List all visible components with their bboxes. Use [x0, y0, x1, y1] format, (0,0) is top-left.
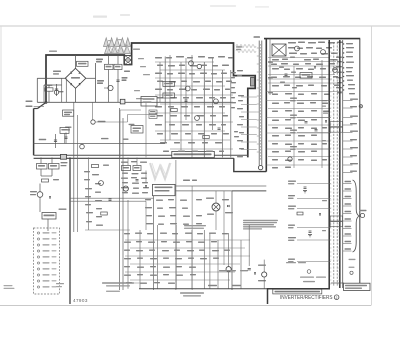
- wire: verticals x61.7/x66.3: [61, 78, 63, 102]
- wire: right block extra rows: [268, 61, 336, 63]
- label: misc left column: [96, 59, 103, 61]
- wire: stubs left of ribbon: [241, 96, 257, 98]
- note box: bottom right: [344, 283, 371, 290]
- resistor R3560: [297, 212, 303, 215]
- inductor L3501 block: [114, 64, 122, 69]
- transistor Q3510 (with cross): [212, 203, 220, 211]
- relay boxes (top right of section): [141, 97, 157, 107]
- inductor L3500 block: [105, 64, 114, 69]
- diode CR3514: [145, 185, 147, 187]
- resistor R3524: [203, 136, 210, 139]
- relay K3500 box: [42, 213, 56, 220]
- transformer T3502 winding columns: [333, 42, 335, 286]
- capacitor C3527: [285, 73, 288, 75]
- fuse F3500 box: [37, 164, 48, 170]
- labels: left of core: [322, 100, 327, 101]
- label: T3500 designator: [133, 49, 140, 50]
- transformer winding junction boxes: [330, 122, 342, 127]
- wire: transformer bottom ties: [331, 282, 344, 284]
- transistor Q3512: [123, 186, 128, 191]
- wire: right block inner rail: [269, 39, 271, 95]
- note: parts list reference text: [243, 220, 278, 221]
- transformer T3500 windings (triangle symbols): [104, 38, 109, 47]
- resistor R3535: [92, 165, 99, 168]
- label: LINE REG: [183, 180, 190, 182]
- wire: inner vertical x294: [293, 66, 295, 168]
- node: ring above right note box: [350, 271, 353, 274]
- labels: near Q3524: [258, 265, 266, 266]
- label: CR20x above bus: [208, 285, 217, 286]
- capacitor C3512: [116, 79, 119, 81]
- transformer T3502 winding bumps: [330, 43, 331, 45]
- label box: LINE INVERTER BOARD ASSY: [172, 151, 215, 157]
- wire: cluster ties: [127, 157, 129, 165]
- diode CR3544: [319, 213, 321, 215]
- transistor Q3511: [91, 120, 95, 124]
- label: LINE-47 INVERTER ASSY: [180, 292, 204, 293]
- capacitor C3520: [55, 134, 57, 148]
- label: fuse ratings: [61, 162, 68, 163]
- svg-text:47903: 47903: [73, 298, 88, 303]
- wire: inner vertical x322: [321, 60, 323, 168]
- label: LINE: [26, 101, 33, 103]
- wire: line input down-run: [33, 109, 35, 156]
- labels: mid section: [145, 199, 151, 200]
- wire: corner links (x120-157): [120, 109, 141, 111]
- wire: secondary stubs into brace: [343, 183, 352, 185]
- transformer T3501 coupling squiggle: [236, 45, 256, 48]
- labels: above right of bus: [286, 262, 296, 263]
- wire: secondary stubs right side: [343, 100, 353, 102]
- labels: bottom cluster values: [124, 233, 130, 234]
- label: Q3508: [97, 80, 104, 82]
- wire: top heavy rail (right block): [264, 38, 360, 40]
- transistor Q3517: [321, 50, 326, 55]
- wire: bottom output bus: [139, 288, 268, 290]
- labels: control section values: [155, 57, 162, 59]
- capacitor C3522: [65, 133, 67, 144]
- node: ring above note: [307, 270, 311, 274]
- label: TO SH ring: [360, 210, 367, 211]
- interconnect ribbon (board edge pair): [258, 41, 260, 166]
- labels: left primary taps of T3502: [290, 98, 297, 99]
- thermistor ring: [54, 90, 58, 94]
- transistor Q3516: [295, 46, 300, 51]
- labels: left-middle: [84, 171, 90, 172]
- capacitor C3540 on tap: [304, 186, 307, 188]
- transistor Q3522: [226, 267, 231, 272]
- zener VR3550: [254, 272, 256, 274]
- labels: chart note: [184, 225, 206, 226]
- wire: output dots: [343, 43, 344, 44]
- wire: right rail vertical: [359, 39, 361, 285]
- wire: bridge bottom: [75, 88, 77, 102]
- wire: to relay: [39, 197, 41, 212]
- wire: control rows: [155, 61, 214, 63]
- IC box left of ribbon: [251, 78, 255, 87]
- wire: primary taps into transformer (left): [297, 100, 331, 102]
- label: relay: [59, 209, 67, 210]
- transistor Q3508: [108, 85, 113, 90]
- connector tab (lower rail): [120, 99, 125, 104]
- labels: between sections: [138, 58, 144, 59]
- transistor Q3509: [80, 144, 85, 149]
- brace: outputs to sheet 2: [353, 180, 360, 252]
- diode CR3512: [227, 205, 229, 207]
- wire: left board rail: [69, 157, 71, 304]
- wire: bridge input: [37, 77, 65, 79]
- label: T-35xx: [65, 127, 72, 128]
- node: sheet ring after title: [334, 295, 339, 300]
- diode CR3521: [325, 120, 327, 122]
- capacitor C3536: [109, 198, 112, 200]
- label: above heavy corner: [49, 51, 57, 52]
- wire: switch second stub: [34, 105, 44, 107]
- label: BE A P.C. assembly note: [219, 270, 236, 271]
- module box A: [163, 81, 175, 86]
- transistor Q3505: [195, 116, 200, 121]
- rectifier cluster block (x120-150): [122, 166, 131, 171]
- labels: right block mid rows: [272, 59, 279, 61]
- label: CR3508 value: [53, 71, 61, 73]
- wire: bridge top to heavy rail: [75, 55, 77, 68]
- wire: mid rails: [175, 185, 266, 187]
- wire: stub x140: [145, 102, 147, 157]
- labels: right block top rows: [288, 42, 296, 44]
- node: sheet reference ring (top): [359, 105, 362, 108]
- transistor Q3518: [333, 68, 338, 73]
- wire: bridge output right: [86, 77, 96, 79]
- board outline: detail box (heavy): [268, 289, 331, 304]
- labels: right column lower marks: [349, 259, 356, 260]
- transistor Q3503: [185, 86, 190, 91]
- wire: lower rail of input section: [37, 101, 233, 103]
- wire: link rows y122: [95, 121, 127, 123]
- bridge rectifier CR3508: [65, 68, 86, 88]
- wire: section verticals: [88, 157, 90, 230]
- connector P3500 (x-box): [125, 56, 132, 65]
- wire: relay drop: [47, 219, 49, 231]
- label: mid-rail values: [101, 138, 109, 139]
- wire: bottom cluster verticals: [127, 200, 129, 289]
- module box B: [163, 93, 175, 98]
- wire: AC primary heavy run (top-left): [46, 43, 255, 157]
- wire: Q3510 ties: [215, 191, 217, 203]
- wire: control section verticals: [159, 62, 161, 102]
- switch S1 line input: [38, 102, 47, 108]
- regulator box: [153, 184, 176, 195]
- label: 7-12A: [129, 124, 135, 125]
- wire: cross ties: [85, 229, 130, 231]
- label: TRIAD: [254, 36, 261, 38]
- label: R3522: [39, 139, 47, 140]
- resistor R3520: [171, 109, 178, 112]
- transistor Q3502: [197, 64, 201, 68]
- connector J3500 (dashed outline): [34, 228, 60, 294]
- capacitor C3517: [136, 179, 139, 181]
- wire: right block rows: [268, 57, 330, 59]
- capacitor C3509 (electrolytic): [56, 84, 58, 96]
- label: LR-3206: [98, 121, 106, 122]
- labels: cluster x120-150: [121, 162, 128, 163]
- label: 1.8K fuse resistor note: [102, 282, 134, 283]
- wire: choke verticals: [108, 55, 110, 64]
- transistor Q3520: [288, 157, 292, 161]
- resistor RT3500 box: [63, 110, 74, 116]
- capacitor C3516: [218, 127, 221, 129]
- wire: feed lines into mid section: [70, 197, 154, 199]
- label: C3512: [122, 77, 128, 79]
- watermark W (light): [150, 163, 170, 179]
- wire: inner rails x73.8/77.5: [73, 102, 75, 232]
- label: bottom-right small notes: [300, 277, 314, 278]
- transistor Q3535: [99, 181, 104, 186]
- resistor R3509: [45, 88, 53, 91]
- labels: column left of ribbon: [237, 70, 243, 71]
- connector J3500 pins: [37, 232, 39, 234]
- print bleed smudge (faint): [93, 16, 107, 18]
- diode CR3530: [49, 196, 51, 198]
- diode CR3517: [314, 66, 316, 68]
- wire: rails from bus: [40, 157, 42, 163]
- transistor Q3530: [37, 192, 43, 198]
- fuse F3501 box: [49, 164, 60, 170]
- wire: lower board bus (pair): [34, 154, 248, 156]
- wire: Q3522 stub: [228, 272, 230, 289]
- transistor Q3501: [189, 61, 194, 66]
- bridge rectifier CR3516 (x-box): [272, 44, 286, 56]
- wire: ribbon ticks: [257, 47, 259, 49]
- wire: control section verticals: [152, 0, 157, 102]
- transformer T3502 core bars: [328, 40, 330, 288]
- labels: around Q3510: [206, 198, 214, 199]
- label: R3508: [236, 46, 242, 47]
- capacitor C3550: [248, 268, 251, 270]
- connector ring E3500: [258, 165, 262, 169]
- wire: bus jog to block rail (heavy): [234, 158, 266, 171]
- labels: right block top extra: [336, 57, 342, 58]
- svg-text:INVERTER/RECTIFIERS: INVERTER/RECTIFIERS: [280, 295, 333, 301]
- transistor Q3504: [214, 99, 219, 104]
- capacitor C3514: [185, 99, 188, 101]
- svg-text:2: 2: [336, 296, 338, 300]
- resistor module box: [300, 73, 312, 79]
- resistor R3536: [101, 212, 108, 215]
- wire: cap leads: [48, 85, 50, 88]
- label box: DETAIL OF SECTION SHOWN ON SHEET 2: [273, 289, 322, 294]
- junction block on bus: [61, 154, 67, 159]
- wire: right block left rail (heavy): [265, 39, 267, 172]
- wire: bottom cluster rows: [125, 239, 250, 241]
- wire: fuse outputs: [40, 169, 42, 176]
- labels: bottom-left notes: [4, 285, 13, 286]
- transistor Q3524: [262, 272, 267, 277]
- wire: mid rail stub: [43, 85, 45, 102]
- capacitor C3530: [305, 121, 308, 123]
- bias box B3500: [60, 127, 69, 133]
- component box (x131): [131, 126, 143, 134]
- capacitor C3531: [315, 129, 318, 131]
- capacitor C3541 on tap: [309, 230, 312, 232]
- resistor R3530: [42, 179, 49, 182]
- label: bridge part number box: [77, 61, 89, 66]
- labels: secondary outputs (upper): [346, 43, 353, 44]
- terminal boxes B17/B18: [149, 110, 157, 114]
- wire: mid rail y143.5: [34, 143, 166, 145]
